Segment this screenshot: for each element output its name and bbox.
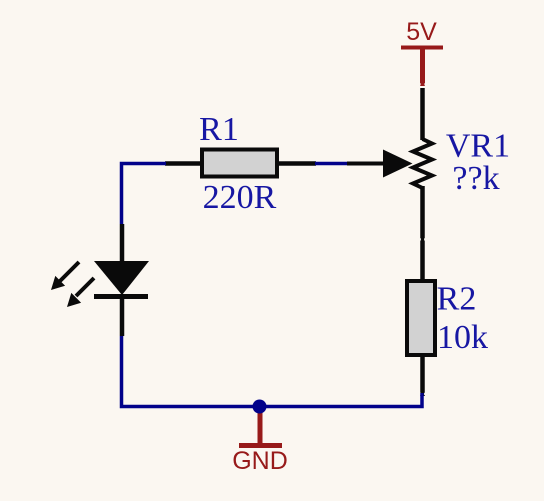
svg-text:R1: R1 (199, 111, 239, 148)
wire R1 right pin (279, 161, 316, 166)
resistor R2 body (407, 281, 435, 355)
svg-text:GND: GND (232, 447, 288, 475)
LED D1 anode pin (120, 224, 125, 264)
LED D1 light arrow 2 shaft (76, 278, 94, 296)
potentiometer VR1 zigzag body (413, 139, 432, 188)
LED D1 triangle (94, 261, 149, 295)
svg-text:VR1: VR1 (446, 128, 510, 165)
svg-text:220R: 220R (203, 179, 277, 216)
wire 5V to VR1 top pin (420, 88, 425, 140)
pin-end notch mid right net (419, 238, 421, 240)
ground stem (258, 407, 263, 445)
potentiometer VR1 wiper shaft (347, 162, 388, 166)
svg-text:??k: ??k (452, 160, 499, 197)
LED D1 light arrow 1 head (51, 276, 65, 290)
svg-text:5V: 5V (406, 18, 437, 46)
wire left net top corner (122, 164, 167, 225)
resistor R2 bottom pin (420, 357, 425, 396)
LED D1 light arrow 2 head (67, 293, 81, 307)
wire VR1 bottom pin to R2 top pin (420, 186, 425, 281)
LED D1 cathode bar (94, 294, 148, 299)
wire blue segment R1 to wiper (315, 162, 348, 166)
LED D1 cathode pin (120, 296, 125, 336)
power terminal 5V stem (420, 48, 425, 86)
power terminal 5V bar (401, 46, 443, 50)
wire left net down to bottom rail (122, 336, 261, 407)
junction node dot (253, 400, 267, 414)
ground bar (239, 443, 282, 448)
LED D1 light arrow 1 shaft (60, 262, 79, 281)
svg-text:R2: R2 (437, 281, 477, 318)
pin-end notch below R2 (419, 393, 421, 395)
potentiometer VR1 wiper arrowhead (383, 150, 413, 178)
resistor R1 left pin (165, 161, 200, 166)
wire bottom rail right corner (258, 393, 422, 407)
svg-text:10k: 10k (437, 319, 488, 356)
resistor R1 body (202, 150, 277, 177)
pin-end notch top net (419, 83, 421, 85)
